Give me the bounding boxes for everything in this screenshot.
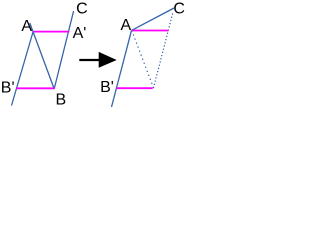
wire magenta segment B'-B bbox=[16, 87, 54, 89]
right figure bbox=[112, 8, 175, 107]
svg-text:B': B' bbox=[100, 79, 114, 96]
svg-text:A': A' bbox=[73, 25, 87, 42]
wire magenta segment A-A' bbox=[34, 31, 70, 33]
arrow between figures bbox=[79, 52, 116, 68]
wire line A-C solid (right) bbox=[132, 8, 175, 30]
wire dotted line A-B (right) bbox=[132, 31, 154, 88]
wire line A-B' extended (right) bbox=[112, 30, 132, 107]
wire line A-B with top extension bbox=[30, 23, 54, 89]
left figure bbox=[12, 11, 74, 106]
svg-text:C: C bbox=[173, 1, 185, 18]
wire line B-A'-C bbox=[54, 11, 73, 89]
svg-text:B': B' bbox=[1, 79, 15, 96]
wire line A-B' extended bbox=[12, 32, 34, 106]
svg-text:B: B bbox=[56, 92, 67, 109]
svg-text:A: A bbox=[21, 18, 32, 35]
wire dotted line C-A'-B (right) bbox=[154, 14, 173, 88]
svg-text:C: C bbox=[76, 1, 88, 18]
wire magenta segment B'-B (right) bbox=[117, 87, 153, 89]
svg-text:A: A bbox=[121, 17, 132, 34]
wire magenta segment A-A' (right) bbox=[133, 30, 169, 32]
